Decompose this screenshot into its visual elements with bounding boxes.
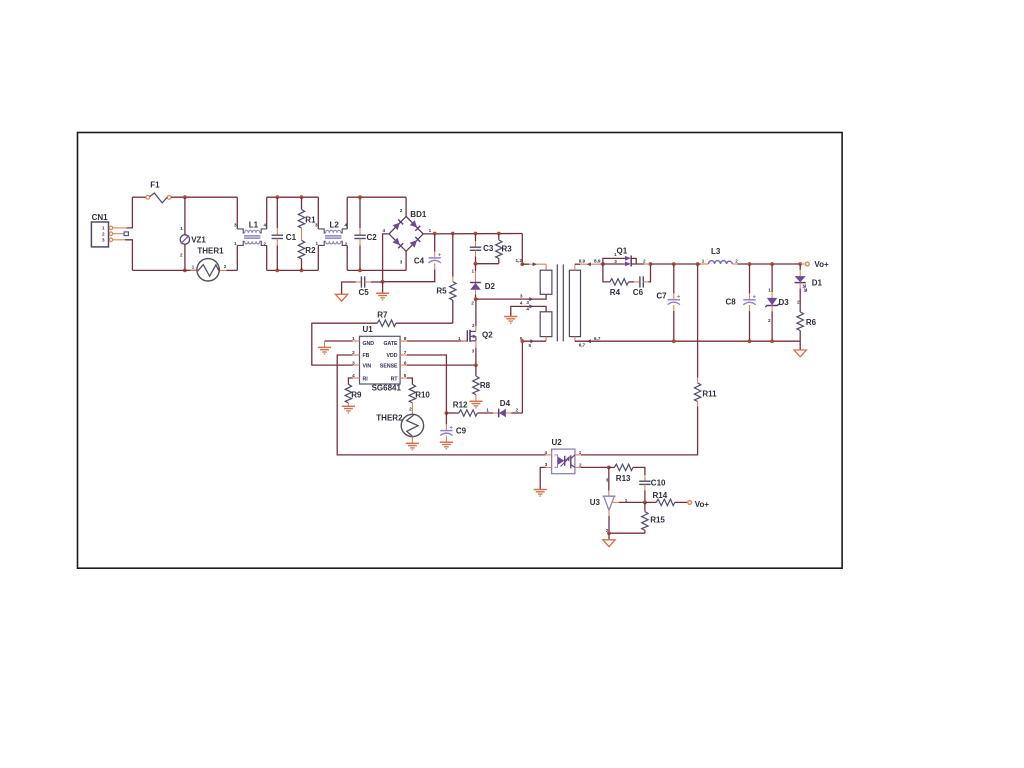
capacitor C3 xyxy=(470,234,494,264)
wire C3/R3 bottom link xyxy=(476,263,499,265)
svg-text:R6: R6 xyxy=(806,318,817,327)
svg-text:1: 1 xyxy=(352,336,355,341)
svg-text:C1: C1 xyxy=(286,233,297,242)
capacitor C2 xyxy=(354,197,377,270)
svg-text:8,9: 8,9 xyxy=(594,259,601,264)
wire top rail segment 1 xyxy=(132,196,146,198)
CN1 pin 2 terminal xyxy=(109,232,123,235)
transformer primary winding box lower xyxy=(540,312,552,341)
diode D2 xyxy=(470,264,495,306)
ground primary (bars) below bridge xyxy=(376,282,389,300)
resistor R2 xyxy=(298,240,316,270)
junction bottom rail at C2 xyxy=(358,269,362,273)
svg-text:1: 1 xyxy=(472,268,475,273)
svg-text:GATE: GATE xyxy=(383,341,398,347)
svg-text:3: 3 xyxy=(234,223,237,228)
svg-text:U2: U2 xyxy=(552,438,563,447)
junction C6 right node xyxy=(649,262,653,266)
wire bridge top stub xyxy=(405,197,407,216)
svg-text:RT: RT xyxy=(391,376,399,382)
svg-text:3: 3 xyxy=(614,259,617,264)
svg-text:R7: R7 xyxy=(377,311,388,320)
wire secondary line L3 to Vo+ xyxy=(738,263,801,265)
svg-text:2: 2 xyxy=(472,323,475,328)
svg-text:2: 2 xyxy=(102,232,105,237)
capacitor C1 xyxy=(272,197,297,270)
svg-text:5: 5 xyxy=(529,343,532,348)
svg-text:C9: C9 xyxy=(456,427,467,436)
resistor R7 xyxy=(377,311,396,327)
wire C4 bottom to primary ground node xyxy=(383,270,435,282)
svg-text:1: 1 xyxy=(579,450,582,455)
svg-text:SG6841: SG6841 xyxy=(372,384,402,393)
svg-text:L2: L2 xyxy=(330,221,340,230)
svg-text:1: 1 xyxy=(702,258,705,263)
svg-text:2: 2 xyxy=(516,408,519,413)
junction VDD/R12/C9 node xyxy=(445,411,449,415)
wire transformer pin 6,7 stub xyxy=(575,336,601,348)
svg-text:U3: U3 xyxy=(590,498,601,507)
junction rail at C4 xyxy=(433,232,437,236)
wire transformer pin 5 xyxy=(520,336,546,348)
junction bottom rail at C1 xyxy=(275,269,279,273)
svg-text:2: 2 xyxy=(224,264,227,269)
svg-text:4: 4 xyxy=(383,228,386,233)
wire transformer pin 4 to ground xyxy=(511,306,546,316)
svg-text:2: 2 xyxy=(409,406,412,411)
svg-text:2: 2 xyxy=(768,318,771,323)
svg-text:D3: D3 xyxy=(779,298,790,307)
junction transformer pin 1,2 xyxy=(520,262,524,266)
svg-text:R2: R2 xyxy=(305,246,316,255)
transformer secondary winding box xyxy=(569,264,580,341)
junction D4 column at pin5 xyxy=(521,339,525,343)
junction sense node xyxy=(474,363,478,367)
junction bottom rail at C8 xyxy=(748,339,752,343)
inductor L3 xyxy=(701,247,739,264)
capacitor C10 xyxy=(633,467,666,502)
svg-text:2: 2 xyxy=(797,300,800,305)
common-mode choke L2 xyxy=(315,221,348,247)
svg-text:Q2: Q2 xyxy=(482,331,493,340)
svg-text:CN1: CN1 xyxy=(92,213,109,222)
svg-text:8,9: 8,9 xyxy=(579,259,586,264)
junction rail at R3 xyxy=(497,232,501,236)
wire Q2 drain up to D2 xyxy=(475,299,477,326)
svg-text:2: 2 xyxy=(643,259,646,264)
svg-text:R8: R8 xyxy=(480,381,491,390)
wire U3 ref to R14 node xyxy=(619,501,645,503)
junction rail at C3 xyxy=(474,232,478,236)
capacitor C8 xyxy=(726,264,756,341)
svg-text:R12: R12 xyxy=(453,401,468,410)
capacitor C6 xyxy=(629,264,651,297)
resistor R10 xyxy=(407,378,430,403)
svg-text:3: 3 xyxy=(102,238,105,243)
shunt regulator U3 xyxy=(590,467,628,533)
ground at R9 xyxy=(342,403,355,413)
resistor R1 xyxy=(298,197,316,228)
svg-text:1: 1 xyxy=(192,264,195,269)
svg-text:R9: R9 xyxy=(351,390,362,399)
junction top rail at R1 xyxy=(300,195,304,199)
resistor R13 xyxy=(609,464,633,483)
wire bottom rail L1-L2 section xyxy=(267,269,319,271)
junction at C8 column xyxy=(748,262,752,266)
wire U1 GATE pin8 to Q2 gate xyxy=(407,340,467,342)
svg-text:3: 3 xyxy=(526,300,529,305)
wire U1 VDD pin7 down to R12 node xyxy=(407,355,446,413)
svg-text:5: 5 xyxy=(404,373,407,378)
svg-text:FB: FB xyxy=(363,353,370,359)
svg-text:C5: C5 xyxy=(359,288,370,297)
svg-text:1: 1 xyxy=(429,228,432,233)
ground at transformer pin 4 xyxy=(504,317,517,324)
svg-text:VDD: VDD xyxy=(387,353,398,359)
svg-text:R4: R4 xyxy=(610,288,621,297)
junction top rail at VZ1 xyxy=(183,195,187,199)
wire bottom rail left of THER1 xyxy=(132,269,197,271)
CN1 pin 1 terminal xyxy=(109,226,126,229)
wire U2 pin3 to ground xyxy=(540,467,545,489)
wire R15 bottom to U3 anode xyxy=(609,532,645,534)
svg-text:VZ1: VZ1 xyxy=(191,235,206,244)
wire CN1 pin1 up to top rail xyxy=(127,197,133,228)
ground at U2 pin3 xyxy=(534,490,547,497)
transistor Q2 MOSFET xyxy=(458,323,493,353)
svg-text:6,7: 6,7 xyxy=(594,336,601,341)
svg-text:GND: GND xyxy=(363,341,375,347)
svg-text:Vo+: Vo+ xyxy=(814,260,829,269)
wire R5 bottom to R7 row xyxy=(396,322,453,324)
wire bridge plus output rail xyxy=(423,233,522,235)
no-connect square on CN1 pin 2 xyxy=(124,232,128,236)
junction bottom rail at R2 xyxy=(300,269,304,273)
svg-text:R13: R13 xyxy=(616,474,631,483)
ground earth (triangle) at C5 xyxy=(335,282,348,301)
svg-text:C8: C8 xyxy=(726,297,737,306)
wire transformer pin 8,9 stub xyxy=(575,259,601,267)
svg-text:2: 2 xyxy=(735,258,738,263)
junction top rail at C1 xyxy=(275,195,279,199)
connector CN1 xyxy=(91,213,108,247)
LED D1 xyxy=(795,264,823,312)
resistor R12 xyxy=(446,401,477,416)
wire U3 anode column xyxy=(608,516,610,533)
ground at R8 xyxy=(469,395,482,408)
dual diode Q1 xyxy=(603,247,651,267)
resistor R14 xyxy=(645,491,688,505)
transformer core xyxy=(557,264,563,341)
junction Q2 drain / transformer pin3 wire xyxy=(474,297,478,301)
svg-text:C3: C3 xyxy=(483,244,494,253)
ground at U3 (triangle) xyxy=(603,533,615,546)
thermistor THER2 xyxy=(376,403,423,437)
svg-text:4: 4 xyxy=(520,301,523,306)
wire L1 left columns xyxy=(236,197,238,270)
wire D4 to transformer pin5 column xyxy=(521,341,523,413)
wire top rail L1-L2 section xyxy=(267,196,319,198)
svg-text:1,2: 1,2 xyxy=(516,258,523,263)
wire U1 SENSE pin6 to Q2 source node xyxy=(407,364,476,366)
svg-text:4: 4 xyxy=(264,223,267,228)
svg-text:R10: R10 xyxy=(415,390,430,399)
svg-text:1: 1 xyxy=(180,226,183,231)
wire secondary line Q1 to L3 xyxy=(651,263,701,265)
svg-text:C2: C2 xyxy=(367,233,378,242)
svg-text:8: 8 xyxy=(404,336,407,341)
junction R14/R15/C10 node xyxy=(643,501,647,505)
resistor R11 xyxy=(694,264,717,407)
svg-text:VIN: VIN xyxy=(363,364,372,370)
wire U1 GND pin1 to ground xyxy=(325,340,353,342)
svg-text:L3: L3 xyxy=(711,247,721,256)
svg-text:3: 3 xyxy=(315,223,318,228)
svg-text:1: 1 xyxy=(768,287,771,292)
common-mode choke L1 xyxy=(234,221,267,247)
junction bottom rail at C7 xyxy=(672,339,676,343)
border frame (decorative) xyxy=(78,133,843,569)
svg-text:THER1: THER1 xyxy=(197,246,224,255)
svg-text:R11: R11 xyxy=(702,390,717,399)
wire transformer pin 1,2 stub xyxy=(516,258,547,266)
svg-text:C7: C7 xyxy=(656,292,667,301)
wire U1 FB pin2 to U2 pin4 xyxy=(337,355,545,455)
junction primary ground node xyxy=(381,280,385,284)
resistor R15 xyxy=(642,502,666,533)
junction bottom rail at VZ1 xyxy=(183,269,187,273)
svg-text:6,7: 6,7 xyxy=(579,343,586,348)
svg-text:C10: C10 xyxy=(651,479,666,488)
bridge rectifier BD1 xyxy=(383,208,432,264)
wire bridge minus output down to primary ground wire xyxy=(383,234,389,282)
capacitor C4 xyxy=(414,234,441,270)
junction at D1/Vo+ column xyxy=(798,262,802,266)
svg-text:C4: C4 xyxy=(414,256,425,265)
junction U3 anode/ground node xyxy=(607,531,611,535)
zener diode D3 xyxy=(765,264,789,341)
ground secondary (triangle) xyxy=(794,341,806,357)
varistor VZ1 xyxy=(180,197,206,270)
svg-text:2: 2 xyxy=(264,241,267,246)
junction Q1/R4 left node xyxy=(601,262,605,266)
wire secondary top line to Q1 node xyxy=(601,263,603,265)
svg-text:1: 1 xyxy=(486,408,489,413)
wire L1 right columns xyxy=(266,197,268,270)
svg-text:L1: L1 xyxy=(249,221,259,230)
CN1 pin 3 terminal xyxy=(109,238,125,241)
svg-text:3: 3 xyxy=(400,259,403,264)
ground at U1 pin1 xyxy=(318,341,331,354)
svg-text:F1: F1 xyxy=(150,181,160,190)
wire R1-R2 mid lead xyxy=(301,228,303,240)
svg-text:C6: C6 xyxy=(633,288,644,297)
wire top rail L2-bridge section xyxy=(347,196,406,198)
wire R7 left to VIN column xyxy=(312,323,378,365)
svg-text:THER2: THER2 xyxy=(376,413,403,422)
resistor R6 xyxy=(797,312,817,341)
fuse F1 xyxy=(146,181,171,203)
resistor R5 xyxy=(436,234,456,324)
thermistor THER1 xyxy=(191,246,227,281)
capacitor C5 xyxy=(348,276,383,297)
transformer pin 3 stub arrow xyxy=(520,294,534,305)
junction at D3 column xyxy=(770,262,774,266)
svg-text:3: 3 xyxy=(352,360,355,365)
svg-text:RI: RI xyxy=(363,376,369,382)
wire transformer pin 3 xyxy=(476,294,546,299)
svg-text:6: 6 xyxy=(404,360,407,365)
junction U3 cathode node xyxy=(607,466,611,470)
svg-text:D1: D1 xyxy=(812,278,823,287)
wire CN1 pin3 down to bottom rail xyxy=(125,240,132,271)
wire Q2 source to sense node xyxy=(475,348,477,365)
terminal Vo+ output xyxy=(800,260,829,269)
svg-text:2: 2 xyxy=(180,253,183,258)
junction bottom rail at D3 xyxy=(770,339,774,343)
IC U1 SG6841 xyxy=(352,325,407,393)
ground at C9 xyxy=(440,442,453,449)
optocoupler U2 xyxy=(545,438,583,474)
wire L2 left columns xyxy=(317,197,319,270)
svg-text:1: 1 xyxy=(316,241,319,246)
svg-text:3: 3 xyxy=(606,478,609,483)
junction top rail at C2 xyxy=(358,195,362,199)
wire bottom rail L2-bridge section xyxy=(347,269,406,271)
ground at THER2 xyxy=(406,437,419,450)
resistor R9 xyxy=(345,378,362,403)
svg-text:Q1: Q1 xyxy=(617,247,628,256)
svg-text:3: 3 xyxy=(520,294,523,299)
wire secondary bottom rail xyxy=(575,340,800,342)
junction at L3/R11 column xyxy=(696,262,700,266)
capacitor C9 xyxy=(440,413,466,442)
junction rail at R5 xyxy=(451,232,455,236)
wire U2 pin2 to R13 node xyxy=(581,466,609,468)
svg-text:BD1: BD1 xyxy=(410,210,427,219)
terminal Vo+ feedback xyxy=(688,500,710,509)
svg-text:R3: R3 xyxy=(502,244,513,253)
wire bottom rail right of THER1 xyxy=(227,269,238,271)
svg-text:R5: R5 xyxy=(436,287,447,296)
svg-text:1: 1 xyxy=(102,226,105,231)
svg-text:1: 1 xyxy=(234,241,237,246)
wire bridge bottom stub to rail xyxy=(405,251,407,270)
svg-text:4: 4 xyxy=(545,450,548,455)
capacitor C7 xyxy=(656,264,680,341)
wire R11 down to U2 pin 1 xyxy=(581,407,698,455)
svg-text:2: 2 xyxy=(400,208,403,213)
svg-text:D4: D4 xyxy=(500,399,511,408)
resistor R3 xyxy=(496,234,513,264)
svg-text:D2: D2 xyxy=(485,282,496,291)
wire top rail segment 2 xyxy=(171,196,237,198)
svg-text:1: 1 xyxy=(458,336,461,341)
resistor R4 xyxy=(603,264,629,297)
junction clamp node at D2 xyxy=(474,262,478,266)
svg-text:U1: U1 xyxy=(363,325,374,334)
transformer primary winding box upper xyxy=(540,264,552,294)
diode D4 xyxy=(477,399,522,418)
svg-text:4: 4 xyxy=(526,307,529,312)
resistor R8 xyxy=(473,365,491,395)
svg-text:2: 2 xyxy=(579,462,582,467)
wire L2 right columns xyxy=(346,197,348,270)
svg-text:3: 3 xyxy=(545,462,548,467)
svg-text:R14: R14 xyxy=(653,491,668,500)
junction at C7 column xyxy=(672,262,676,266)
svg-text:R15: R15 xyxy=(650,516,665,525)
svg-text:SENSE: SENSE xyxy=(380,364,398,370)
transformer pin 4 stub arrow xyxy=(520,301,534,312)
wire rail down to transformer pin 1,2 xyxy=(521,234,523,265)
svg-text:7: 7 xyxy=(404,350,407,355)
svg-text:3: 3 xyxy=(472,348,475,353)
svg-text:2: 2 xyxy=(471,301,474,306)
svg-text:Vo+: Vo+ xyxy=(695,500,710,509)
